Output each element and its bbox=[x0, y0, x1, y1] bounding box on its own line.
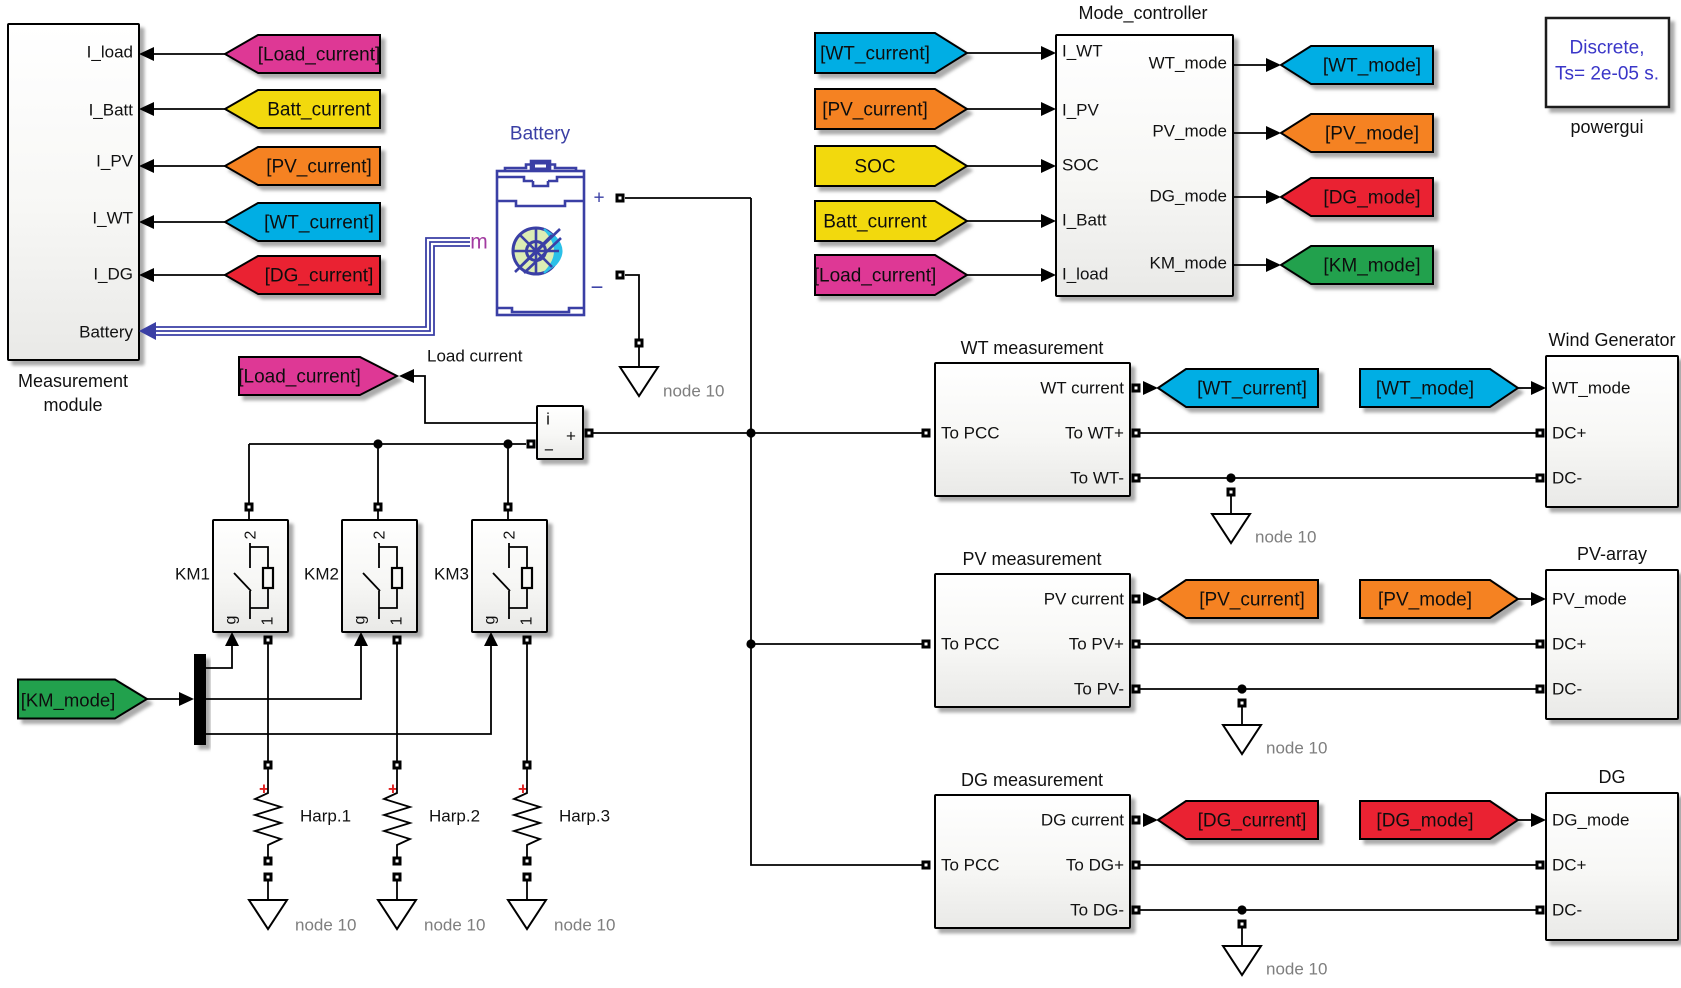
svg-text:powergui: powergui bbox=[1570, 117, 1643, 137]
ground port square (battery) bbox=[635, 339, 644, 348]
wire PV_current to Measurement module bbox=[154, 165, 225, 167]
battery - port bbox=[616, 271, 625, 280]
wire bbox=[267, 881, 269, 900]
goto tag [DG_current] bbox=[1158, 801, 1318, 839]
svg-text:node 10: node 10 bbox=[554, 916, 615, 935]
svg-text:Wind Generator: Wind Generator bbox=[1548, 330, 1675, 350]
i block output port bbox=[585, 429, 594, 438]
svg-text:+: + bbox=[566, 427, 576, 446]
Harp.3 top port bbox=[523, 761, 532, 770]
svg-text:I_WT: I_WT bbox=[1062, 42, 1103, 61]
svg-text:g: g bbox=[352, 616, 369, 625]
svg-text:DG current: DG current bbox=[1041, 811, 1124, 830]
Harp.2 top port bbox=[393, 761, 402, 770]
goto tag [PV_current] bbox=[1158, 580, 1318, 618]
svg-text:[KM_mode]: [KM_mode] bbox=[1323, 256, 1420, 277]
DC- port bbox=[1536, 474, 1545, 483]
KM2 bottom port bbox=[393, 636, 402, 645]
arrowhead into [PV_current] tag bbox=[1143, 592, 1158, 606]
bus arrowhead into Battery port bbox=[139, 322, 156, 340]
svg-text:I_PV: I_PV bbox=[96, 152, 134, 171]
svg-text:+: + bbox=[593, 188, 604, 209]
svg-text:To PCC: To PCC bbox=[941, 856, 1000, 875]
arrowhead into [Load_current] tag bbox=[399, 369, 414, 383]
from tag SOC (controller input) bbox=[815, 146, 967, 186]
DC+ port bbox=[1536, 640, 1545, 649]
svg-text:To WT-: To WT- bbox=[1070, 469, 1124, 488]
svg-text:1: 1 bbox=[519, 616, 536, 625]
KM3 g arrowhead bbox=[484, 632, 498, 646]
svg-text:g: g bbox=[482, 616, 499, 625]
svg-text:−: − bbox=[544, 441, 554, 460]
wire PCC horizontal to KM tops bbox=[249, 443, 526, 445]
wire bbox=[1241, 707, 1243, 725]
svg-text:[Load_current]: [Load_current] bbox=[814, 266, 937, 287]
ground port (Harp.1) bbox=[264, 873, 273, 882]
wire Batt_current to Measurement module bbox=[154, 108, 225, 110]
block Wind Generator bbox=[1546, 356, 1678, 507]
wire drop to KM3 top bbox=[507, 444, 509, 520]
block WT measurement bbox=[935, 363, 1130, 496]
goto tag [PV_mode] (controller output) bbox=[1281, 114, 1433, 152]
svg-text:node 10: node 10 bbox=[663, 382, 724, 401]
To PV+ port bbox=[1132, 640, 1141, 649]
svg-text:2: 2 bbox=[372, 530, 389, 539]
svg-text:DC-: DC- bbox=[1552, 469, 1582, 488]
To PCC port bbox=[922, 640, 931, 649]
Harp.1 bottom port bbox=[264, 857, 273, 866]
svg-text:KM2: KM2 bbox=[304, 565, 339, 584]
svg-text:To DG+: To DG+ bbox=[1066, 856, 1124, 875]
wire bus to WT measurement To PCC bbox=[751, 432, 922, 434]
wire i block to [Load_current] tag bbox=[414, 376, 537, 423]
svg-text:[WT_mode]: [WT_mode] bbox=[1376, 379, 1474, 400]
WT current port bbox=[1132, 384, 1141, 393]
arrowhead into [KM_mode] tag bbox=[1266, 258, 1281, 272]
KM2 g arrowhead bbox=[354, 632, 368, 646]
svg-text:Discrete,: Discrete, bbox=[1570, 38, 1645, 59]
DG current port bbox=[1132, 816, 1141, 825]
ground node 10 (DG) bbox=[1223, 946, 1261, 975]
wire Batt_current to controller bbox=[967, 220, 1042, 222]
svg-text:[DG_current]: [DG_current] bbox=[265, 266, 374, 287]
wire i block output to bus bbox=[593, 432, 751, 434]
wire bbox=[396, 881, 398, 900]
svg-text:module: module bbox=[43, 395, 102, 415]
block PV-array bbox=[1546, 570, 1678, 719]
goto tag [Load_current] bbox=[238, 357, 397, 395]
svg-text:Battery: Battery bbox=[79, 323, 133, 342]
breaker KM3 bbox=[472, 520, 547, 632]
svg-text:Measurement: Measurement bbox=[18, 371, 128, 391]
svg-text:Harp.2: Harp.2 bbox=[429, 807, 480, 826]
svg-text:DC-: DC- bbox=[1552, 901, 1582, 920]
svg-text:PV current: PV current bbox=[1044, 590, 1125, 609]
svg-text:I_PV: I_PV bbox=[1062, 101, 1100, 120]
block DG bbox=[1546, 793, 1678, 940]
ground node 10 (Harp.1) bbox=[249, 900, 287, 929]
ground port (Harp.2) bbox=[393, 873, 402, 882]
svg-text:Mode_controller: Mode_controller bbox=[1078, 3, 1207, 24]
goto tag [WT_current] bbox=[1158, 369, 1318, 407]
wire WT_current to Measurement module bbox=[154, 221, 225, 223]
svg-text:To DG-: To DG- bbox=[1070, 901, 1124, 920]
svg-text:Load current: Load current bbox=[427, 347, 523, 366]
svg-text:[PV_current]: [PV_current] bbox=[1199, 590, 1305, 611]
arrowhead into demux bbox=[179, 692, 194, 706]
svg-text:1: 1 bbox=[260, 616, 277, 625]
wire Load_current to controller bbox=[967, 274, 1042, 276]
svg-text:To PV-: To PV- bbox=[1074, 680, 1124, 699]
svg-text:WT measurement: WT measurement bbox=[961, 338, 1104, 358]
junction ground (WT) bbox=[1226, 473, 1235, 482]
svg-text:[KM_mode]: [KM_mode] bbox=[21, 690, 116, 712]
wire bus to PV measurement To PCC bbox=[751, 643, 922, 645]
wire demux out1 to KM1 g bbox=[206, 646, 232, 668]
from tag [WT_current] (controller input) bbox=[815, 33, 967, 73]
junction ground (DG) bbox=[1237, 905, 1246, 914]
junction bus/PV bbox=[746, 639, 755, 648]
from tag [DG_current] (left column) bbox=[225, 256, 380, 294]
arrowhead into [WT_mode] tag bbox=[1266, 58, 1281, 72]
current measurement block i bbox=[537, 406, 583, 459]
svg-text:1: 1 bbox=[389, 616, 406, 625]
ground port (WT) bbox=[1227, 488, 1236, 497]
svg-text:PV measurement: PV measurement bbox=[962, 549, 1101, 569]
svg-text:I_WT: I_WT bbox=[92, 209, 133, 228]
wire drop to KM2 top bbox=[377, 444, 379, 520]
svg-text:[PV_current]: [PV_current] bbox=[266, 157, 372, 178]
arrowhead into controller (SOC) bbox=[1041, 159, 1056, 173]
svg-text:m: m bbox=[470, 231, 488, 254]
arrowhead into Wind Generator bbox=[1531, 381, 1546, 395]
block powergui bbox=[1546, 18, 1669, 107]
svg-text:I_load: I_load bbox=[87, 43, 133, 62]
wire demux out2 to KM2 g bbox=[206, 646, 361, 699]
arrowhead into controller (Batt_current) bbox=[1041, 214, 1056, 228]
Harp.2 bottom port bbox=[393, 857, 402, 866]
svg-text:node 10: node 10 bbox=[1255, 528, 1316, 547]
svg-text:KM_mode: KM_mode bbox=[1150, 254, 1227, 273]
port arrowhead I PV_current bbox=[139, 159, 154, 173]
goto tag [DG_mode] (controller output) bbox=[1281, 178, 1433, 216]
wire KM bottom to Harp.1 bbox=[267, 644, 269, 761]
wire [DG_mode] to DG bbox=[1518, 819, 1532, 821]
svg-text:−: − bbox=[591, 275, 604, 300]
i block input port bbox=[527, 440, 536, 449]
arrowhead into [DG_current] tag bbox=[1143, 813, 1158, 827]
wire [WT_mode] to Wind Generator bbox=[1518, 387, 1532, 389]
wire bbox=[638, 347, 640, 367]
junction bbox=[503, 439, 512, 448]
svg-text:DG: DG bbox=[1599, 767, 1626, 787]
svg-text:WT current: WT current bbox=[1040, 379, 1124, 398]
wire battery - to ground bbox=[625, 275, 639, 339]
ground port (Harp.3) bbox=[523, 873, 532, 882]
wire To DG+ to DC+ bbox=[1140, 864, 1536, 866]
arrowhead into controller (PV_current) bbox=[1041, 102, 1056, 116]
wire controller WT_mode out bbox=[1233, 64, 1266, 66]
wire bbox=[1230, 496, 1232, 514]
block Measurement module bbox=[8, 24, 139, 360]
wire Load_current to Measurement module bbox=[154, 53, 225, 55]
ground node 10 (PV) bbox=[1223, 725, 1261, 754]
wire SOC to controller bbox=[967, 165, 1042, 167]
KM1 bottom port bbox=[264, 636, 273, 645]
goto tag [WT_mode] (controller output) bbox=[1281, 46, 1433, 84]
svg-text:DG measurement: DG measurement bbox=[961, 770, 1103, 790]
KM1 g arrowhead bbox=[225, 632, 239, 646]
DC+ port bbox=[1536, 861, 1545, 870]
svg-text:PV_mode: PV_mode bbox=[1552, 590, 1627, 609]
svg-text:node 10: node 10 bbox=[424, 916, 485, 935]
port arrowhead I Batt_current bbox=[139, 102, 154, 116]
svg-text:[WT_current]: [WT_current] bbox=[1197, 379, 1307, 400]
from tag [Load_current] (controller input) bbox=[814, 255, 967, 295]
block DG measurement bbox=[935, 795, 1130, 928]
port arrowhead I DG_current bbox=[139, 268, 154, 282]
breaker KM2 bbox=[342, 520, 417, 632]
svg-text:PV_mode: PV_mode bbox=[1152, 122, 1227, 141]
wire WT_current to controller bbox=[967, 52, 1042, 54]
battery + port bbox=[616, 194, 625, 203]
To WT+ port bbox=[1132, 429, 1141, 438]
wire bbox=[526, 881, 528, 900]
wire [PV_mode] to PV-array bbox=[1518, 598, 1532, 600]
junction bus/WT bbox=[746, 428, 755, 437]
svg-text:[DG_current]: [DG_current] bbox=[1198, 811, 1307, 832]
KM2 top port bbox=[374, 503, 383, 512]
svg-text:g: g bbox=[223, 616, 240, 625]
svg-text:KM1: KM1 bbox=[175, 565, 210, 584]
DC+ port bbox=[1536, 429, 1545, 438]
resistor Harp.3 bbox=[514, 769, 540, 857]
svg-text:node 10: node 10 bbox=[1266, 960, 1327, 979]
svg-text:2: 2 bbox=[243, 530, 260, 539]
svg-text:I_Batt: I_Batt bbox=[89, 101, 134, 120]
To PCC port bbox=[922, 861, 931, 870]
svg-text:To WT+: To WT+ bbox=[1065, 424, 1124, 443]
svg-text:Batt_current: Batt_current bbox=[823, 212, 927, 233]
svg-text:PV-array: PV-array bbox=[1577, 544, 1647, 564]
wire controller PV_mode out bbox=[1233, 132, 1266, 134]
wire KM bottom to Harp.2 bbox=[396, 644, 398, 761]
DC- port bbox=[1536, 906, 1545, 915]
wire To DG- to DC- bbox=[1140, 909, 1536, 911]
svg-text:[DG_mode]: [DG_mode] bbox=[1323, 188, 1420, 209]
ground node 10 (Harp.3) bbox=[508, 900, 546, 929]
To PV- port bbox=[1132, 685, 1141, 694]
goto tag [KM_mode] (controller output) bbox=[1281, 246, 1433, 284]
svg-text:Batt_current: Batt_current bbox=[267, 100, 371, 121]
from tag Batt_current (controller input) bbox=[815, 201, 967, 241]
wire DG_current to Measurement module bbox=[154, 274, 225, 276]
svg-text:[Load_current]: [Load_current] bbox=[238, 367, 361, 388]
ground node 10 (Harp.2) bbox=[378, 900, 416, 929]
PV current port bbox=[1132, 595, 1141, 604]
To DG- port bbox=[1132, 906, 1141, 915]
svg-text:SOC: SOC bbox=[854, 157, 895, 178]
arrowhead into [DG_mode] tag bbox=[1266, 190, 1281, 204]
wire To PV- to DC- bbox=[1140, 688, 1536, 690]
Harp.1 top port bbox=[264, 761, 273, 770]
from tag [WT_mode] bbox=[1360, 369, 1518, 407]
junction bbox=[373, 439, 382, 448]
svg-text:To PCC: To PCC bbox=[941, 635, 1000, 654]
svg-text:node 10: node 10 bbox=[1266, 739, 1327, 758]
svg-text:To PV+: To PV+ bbox=[1069, 635, 1124, 654]
wire KM bottom to Harp.3 bbox=[526, 644, 528, 761]
wire battery + to bus bbox=[625, 197, 751, 199]
arrowhead into PV-array bbox=[1531, 592, 1546, 606]
from tag [WT_current] (left column) bbox=[225, 203, 380, 241]
svg-text:DC+: DC+ bbox=[1552, 635, 1587, 654]
svg-text:Ts= 2e-05 s.: Ts= 2e-05 s. bbox=[1555, 64, 1659, 85]
arrowhead into controller (WT_current) bbox=[1041, 46, 1056, 60]
from tag [PV_mode] bbox=[1360, 580, 1518, 618]
resistor Harp.2 bbox=[384, 769, 410, 857]
battery inner icon bbox=[513, 228, 562, 274]
wire PV_current to controller bbox=[967, 108, 1042, 110]
wire [KM_mode] to demux bbox=[147, 698, 180, 700]
KM3 bottom port bbox=[523, 636, 532, 645]
svg-text:[Load_current]: [Load_current] bbox=[258, 45, 381, 66]
wire demux out3 to KM3 g bbox=[206, 646, 491, 734]
svg-text:DC+: DC+ bbox=[1552, 856, 1587, 875]
svg-text:DG_mode: DG_mode bbox=[1150, 187, 1227, 206]
arrowhead into DG bbox=[1531, 813, 1546, 827]
ground port (PV) bbox=[1238, 699, 1247, 708]
To WT- port bbox=[1132, 474, 1141, 483]
main PCC bus vertical wire bbox=[751, 198, 922, 865]
port arrowhead I WT_current bbox=[139, 215, 154, 229]
wire To PV+ to DC+ bbox=[1140, 643, 1536, 645]
svg-text:[WT_mode]: [WT_mode] bbox=[1323, 56, 1421, 77]
wire drop to KM1 top bbox=[248, 444, 250, 520]
from tag [PV_current] (controller input) bbox=[815, 89, 967, 129]
svg-text:To PCC: To PCC bbox=[941, 424, 1000, 443]
ground node 10 (WT) bbox=[1212, 514, 1250, 543]
svg-text:KM3: KM3 bbox=[434, 565, 469, 584]
from tag Batt_current (left column) bbox=[225, 90, 380, 128]
svg-text:2: 2 bbox=[502, 530, 519, 539]
svg-text:[PV_current]: [PV_current] bbox=[822, 100, 928, 121]
ground node 10 (battery) bbox=[620, 367, 658, 396]
from tag [KM_mode] bbox=[18, 680, 147, 719]
wire controller DG_mode out bbox=[1233, 196, 1266, 198]
measurement bus wire (triple line) bbox=[156, 238, 470, 335]
junction ground (PV) bbox=[1237, 684, 1246, 693]
from tag [DG_mode] bbox=[1360, 801, 1518, 839]
svg-text:[WT_current]: [WT_current] bbox=[264, 213, 374, 234]
wire bbox=[1241, 928, 1243, 946]
svg-text:I_load: I_load bbox=[1062, 265, 1108, 284]
svg-text:WT_mode: WT_mode bbox=[1149, 54, 1227, 73]
demux bar bbox=[194, 654, 206, 745]
svg-text:DC+: DC+ bbox=[1552, 424, 1587, 443]
KM1 top port bbox=[245, 503, 254, 512]
svg-text:Harp.3: Harp.3 bbox=[559, 807, 610, 826]
from tag [PV_current] (left column) bbox=[225, 147, 380, 185]
svg-text:Battery: Battery bbox=[510, 124, 571, 145]
Harp.3 bottom port bbox=[523, 857, 532, 866]
wire To WT- to DC- bbox=[1140, 477, 1536, 479]
To DG+ port bbox=[1132, 861, 1141, 870]
svg-text:I_DG: I_DG bbox=[93, 265, 133, 284]
wire controller KM_mode out bbox=[1233, 264, 1266, 266]
svg-text:Harp.1: Harp.1 bbox=[300, 807, 351, 826]
svg-text:[PV_mode]: [PV_mode] bbox=[1378, 590, 1472, 611]
KM3 top port bbox=[504, 503, 513, 512]
from tag [Load_current] (left column) bbox=[225, 35, 380, 73]
battery block bbox=[497, 161, 584, 315]
port arrowhead I Load_current bbox=[139, 47, 154, 61]
block Mode_controller bbox=[1056, 35, 1233, 296]
svg-text:I_Batt: I_Batt bbox=[1062, 211, 1107, 230]
To PCC port bbox=[922, 429, 931, 438]
svg-text:[WT_current]: [WT_current] bbox=[820, 44, 930, 65]
DC- port bbox=[1536, 685, 1545, 694]
svg-text:[PV_mode]: [PV_mode] bbox=[1325, 124, 1419, 145]
svg-text:[DG_mode]: [DG_mode] bbox=[1376, 811, 1473, 832]
svg-text:i: i bbox=[546, 410, 550, 429]
resistor Harp.1 bbox=[255, 769, 281, 857]
ground port (DG) bbox=[1238, 920, 1247, 929]
svg-text:SOC: SOC bbox=[1062, 156, 1099, 175]
arrowhead into controller (Load_current) bbox=[1041, 268, 1056, 282]
svg-text:WT_mode: WT_mode bbox=[1552, 379, 1630, 398]
svg-text:DC-: DC- bbox=[1552, 680, 1582, 699]
svg-text:node 10: node 10 bbox=[295, 916, 356, 935]
svg-text:DG_mode: DG_mode bbox=[1552, 811, 1629, 830]
block PV measurement bbox=[935, 574, 1130, 707]
wire To WT+ to DC+ bbox=[1140, 432, 1536, 434]
breaker KM1 bbox=[213, 520, 288, 632]
arrowhead into [PV_mode] tag bbox=[1266, 126, 1281, 140]
arrowhead into [WT_current] tag bbox=[1143, 381, 1158, 395]
